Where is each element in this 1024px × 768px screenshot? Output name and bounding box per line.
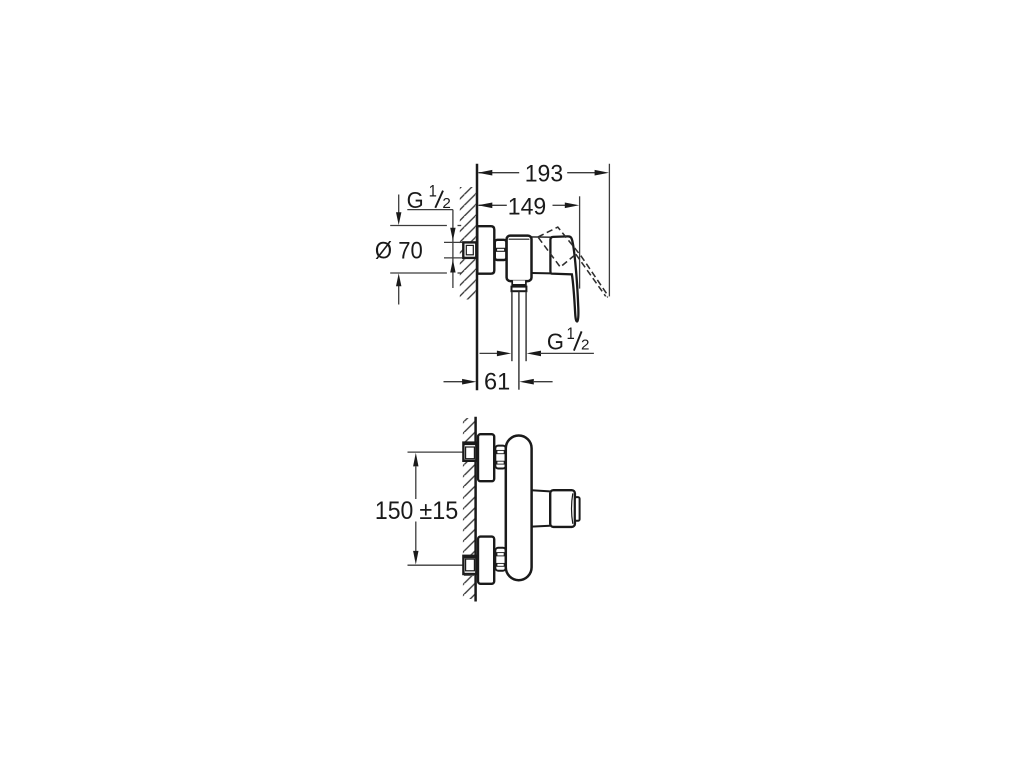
- svg-text:1: 1: [429, 183, 437, 201]
- label Ø 70: [375, 237, 423, 264]
- body capsule (plan view): [506, 436, 532, 581]
- upper union nut (plan view): [495, 446, 506, 469]
- extension lines of square fitting: [444, 242, 462, 258]
- neck below body: [512, 280, 526, 284]
- dimension 149: [479, 204, 567, 206]
- svg-text:G: G: [547, 329, 564, 355]
- dimension 150±15 extension lines: [408, 452, 464, 565]
- hose connection nut: [512, 287, 527, 292]
- handle base (plan view): [550, 490, 575, 527]
- dimension 193: [479, 172, 597, 174]
- svg-text:±15: ±15: [419, 497, 458, 525]
- handle with lever blade (side view, one fused outline): [550, 236, 578, 321]
- svg-text:149: 149: [508, 193, 546, 220]
- svg-text:150: 150: [375, 497, 413, 525]
- wall line (side view): [476, 164, 479, 391]
- wall line (plan view): [474, 417, 477, 602]
- handle inner arc (plan view): [572, 493, 573, 523]
- lower union nut (plan view): [495, 548, 506, 571]
- label G 1/2 (hose thread): [547, 329, 564, 355]
- cartridge housing lines (right of body): [532, 236, 552, 238]
- wall hatching (plan view): [463, 418, 476, 599]
- svg-text:1: 1: [567, 325, 575, 343]
- leader arrows for hose G 1/2: [480, 352, 500, 354]
- svg-text:61: 61: [484, 370, 510, 396]
- union nut (side view): [495, 240, 507, 260]
- lower escutcheon (plan view): [478, 537, 494, 584]
- handle end cap (plan view): [575, 497, 580, 521]
- dimension 149 extension line: [579, 196, 581, 288]
- dimension 193 extension line: [608, 164, 610, 297]
- square fitting in wall (side view): [463, 242, 476, 258]
- handle raised position (dashed): [538, 227, 608, 297]
- handle neck (plan view): [532, 490, 550, 526]
- svg-text:Ø 70: Ø 70: [375, 237, 423, 264]
- shower hose lines: [512, 292, 526, 390]
- upper square fitting (plan view): [463, 443, 476, 461]
- label G 1/2 (wall supply thread): [407, 188, 424, 214]
- label 150 ±15: [375, 497, 413, 525]
- wall hatching (side view): [460, 187, 477, 300]
- lower square fitting (plan view): [463, 556, 476, 574]
- leader for G 1/2: [407, 210, 453, 288]
- dimension lines Ø70: [390, 195, 461, 305]
- svg-text:2: 2: [581, 337, 589, 354]
- svg-text:193: 193: [525, 160, 563, 187]
- dimension 61: [444, 381, 465, 383]
- valve body (side view): [507, 236, 532, 282]
- escutcheon (side view): [477, 226, 494, 274]
- upper escutcheon (plan view): [478, 434, 494, 481]
